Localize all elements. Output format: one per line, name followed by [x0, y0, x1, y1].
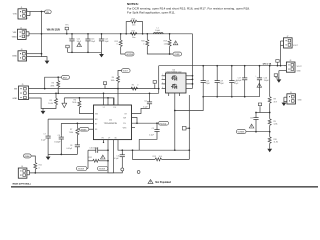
node junction J1 wire — [41, 11, 43, 13]
wire VBIAS to R11 — [31, 156, 35, 163]
svg-text:R8: R8 — [274, 99, 276, 101]
svg-text:20m: 20m — [132, 37, 136, 39]
net label VOUT fb — [122, 69, 131, 73]
pin stub U1 top pin4 — [113, 98, 115, 105]
not-populated mark C12 — [77, 43, 82, 47]
svg-text:SW: SW — [123, 117, 126, 119]
svg-text:GND: GND — [12, 98, 17, 100]
node junction J3 — [41, 53, 43, 55]
node junction VIN bus — [41, 33, 43, 35]
node junction C4 rail — [149, 92, 151, 94]
svg-text:R2: R2 — [132, 84, 134, 86]
net label EN — [62, 75, 70, 79]
capacitor C20 output — [229, 66, 239, 97]
svg-text:RT: RT — [95, 123, 97, 125]
svg-text:3 2: 3 2 — [103, 107, 105, 109]
capacitor C19 output — [215, 66, 225, 97]
ground J9 — [282, 103, 287, 106]
resistor R13 — [153, 156, 190, 161]
test point C11 terminal — [121, 168, 124, 171]
node junction R11 bottom — [34, 172, 36, 174]
svg-text:R11: R11 — [39, 165, 42, 167]
wire agnd rail — [29, 92, 159, 94]
node junction sw pg — [136, 122, 138, 124]
resistor R4 — [111, 76, 120, 105]
node junction C15 top — [202, 65, 204, 67]
svg-text:R7: R7 — [70, 129, 72, 131]
svg-text:J7: J7 — [287, 36, 289, 38]
connector J9 gnd — [284, 92, 302, 104]
net label ENSS — [80, 127, 94, 131]
test point TP gnd — [66, 45, 69, 52]
wire vreg line — [64, 98, 114, 105]
svg-text:76.8k: 76.8k — [72, 102, 76, 104]
svg-text:VBIAS (OPTIONAL): VBIAS (OPTIONAL) — [12, 183, 31, 186]
svg-text:CSD87588ND Q5D: CSD87588ND Q5D — [166, 72, 182, 74]
svg-text:1.0µH: 1.0µH — [155, 30, 161, 32]
connector J2 — [12, 27, 29, 39]
node junction TP1 — [66, 33, 68, 35]
node junction C18 bottom — [255, 131, 257, 133]
svg-text:GND: GND — [297, 71, 302, 73]
svg-text:VBIAS: VBIAS — [24, 155, 30, 158]
svg-text:J5: J5 — [22, 84, 24, 86]
svg-text:C5: C5 — [152, 128, 154, 130]
capacitor C13 — [85, 34, 96, 53]
capacitor C18 feedforward — [250, 113, 259, 132]
svg-text:150µF: 150µF — [264, 80, 270, 82]
ground input caps — [99, 52, 104, 57]
svg-text:Not Populated: Not Populated — [155, 181, 171, 184]
svg-text:TP1: TP1 — [65, 25, 68, 27]
wire U1 sw pin — [132, 118, 138, 124]
svg-text:0: 0 — [117, 44, 118, 46]
net label GOSNS — [125, 52, 134, 56]
wire R19 to sense label — [169, 46, 171, 54]
resistor R2 series fb — [131, 84, 138, 90]
wire J1 to VIN net label — [30, 11, 45, 13]
wire U2 pgnd down path — [174, 96, 176, 150]
node junction pin1 rail — [103, 92, 105, 94]
svg-text:C11: C11 — [116, 155, 119, 157]
net label VIN — [45, 10, 52, 14]
node junction loop right — [142, 33, 144, 35]
op IC U1 TPS54824 — [94, 105, 132, 140]
resistor R16 parallel loop — [126, 18, 142, 33]
pin stubs U2 bottom — [169, 93, 180, 96]
wire under-IC loop right rail — [107, 140, 109, 169]
capacitor C6 — [54, 135, 64, 154]
svg-text:R5: R5 — [50, 100, 52, 102]
resistor R11 — [34, 163, 42, 173]
svg-text:BT: BT — [125, 113, 127, 115]
wire R13 branch — [133, 150, 156, 159]
svg-text:VOUT: VOUT — [293, 45, 299, 47]
connector J3 — [12, 49, 42, 61]
capacitor C5 vreg — [139, 123, 159, 139]
resistor R6 — [72, 98, 94, 114]
node junction loop c10 — [107, 149, 109, 151]
svg-text:VIN: VIN — [13, 14, 17, 16]
node junction C17 top — [244, 65, 246, 67]
node junction R18 — [146, 33, 148, 35]
output rail VOUT — [159, 65, 287, 67]
wire vertical VIN bus — [41, 12, 43, 57]
test point TP fb — [258, 103, 269, 113]
svg-text:J8: J8 — [289, 60, 291, 62]
resistor R8 feedback top — [268, 66, 277, 119]
capacitor C7 — [41, 133, 51, 154]
wire J8 gnd — [278, 71, 280, 80]
wire under-IC loop left rail — [87, 150, 89, 168]
svg-text:R16: R16 — [132, 18, 135, 20]
resistor R19 — [164, 34, 172, 46]
capacitor C16 output bulk — [255, 66, 269, 97]
svg-text:C8: C8 — [70, 145, 72, 147]
node junction C5 tap — [156, 122, 158, 124]
connector J1 — [13, 7, 30, 20]
pin stubs U2 left — [162, 74, 166, 89]
wire VIN rail corner to U2 — [192, 34, 194, 89]
svg-text:R6: R6 — [74, 99, 76, 101]
svg-text:R15: R15 — [115, 41, 118, 43]
wire enable branch — [45, 77, 62, 88]
pin stubs U1 left — [48, 119, 93, 123]
net label CSNS — [173, 52, 182, 56]
pin stub U1 bottom pin1 — [103, 140, 105, 143]
svg-text:MODE: MODE — [99, 169, 105, 171]
node junction comp gnd — [60, 154, 62, 156]
analog ground symbol — [62, 98, 67, 108]
svg-text:R10: R10 — [274, 139, 277, 141]
inductor L1 — [154, 28, 164, 34]
svg-text:PGOOD: PGOOD — [160, 123, 167, 125]
svg-text:R9: R9 — [274, 121, 276, 123]
node junction segA c11 — [121, 149, 123, 151]
node junction C18 top — [255, 112, 257, 114]
resistor R18 — [141, 34, 149, 46]
svg-text:R3: R3 — [52, 83, 54, 85]
connector J7 vout top — [281, 36, 299, 48]
node junction segA R13 — [132, 149, 134, 151]
svg-text:J3: J3 — [21, 49, 23, 51]
node junction EN branch — [44, 88, 46, 90]
wire SW node vertical — [188, 95, 190, 159]
svg-text:1 16: 1 16 — [113, 107, 116, 109]
border bottom line — [11, 186, 318, 187]
capacitor C15 output — [201, 66, 211, 97]
node junction R15 — [120, 33, 122, 35]
svg-text:MODE: MODE — [78, 169, 84, 171]
node junction loop left — [125, 33, 127, 35]
node junction R3 top — [57, 76, 59, 78]
connector J4 enable — [12, 84, 28, 100]
svg-text:12V @ 3A: 12V @ 3A — [263, 63, 272, 66]
wire J3 to ground — [42, 57, 48, 61]
ground J8 — [277, 79, 282, 82]
svg-text:0: 0 — [39, 167, 40, 169]
svg-text:10.0: 10.0 — [159, 156, 163, 158]
wire vbias line — [30, 171, 123, 173]
net label VBIAS — [24, 154, 32, 158]
wire output gnd rail — [203, 96, 259, 98]
svg-text:R19: R19 — [164, 41, 167, 43]
node junction R3 bottom — [57, 92, 59, 94]
svg-text:100µF: 100µF — [236, 80, 242, 82]
ground J4 R5 — [41, 111, 46, 114]
wire U1 pgood — [132, 122, 159, 124]
node junction C19 bottom — [216, 96, 218, 98]
svg-text:J1: J1 — [21, 7, 23, 9]
wire fb line J4 to rail drop — [29, 88, 159, 90]
resistor R10 feedback bottom — [268, 137, 278, 149]
svg-text:J9: J9 — [290, 92, 292, 94]
ground R10 — [267, 149, 272, 152]
svg-text:11.8k: 11.8k — [274, 142, 278, 144]
node junction C20 bottom — [231, 96, 233, 98]
node junction C16 top — [259, 65, 261, 67]
test point TP sw — [153, 81, 156, 89]
connector J6 vbias — [12, 166, 31, 185]
net label RT — [77, 167, 89, 171]
svg-text:J6: J6 — [21, 166, 23, 168]
capacitor C14 — [99, 34, 110, 53]
svg-text:CP: CP — [108, 137, 110, 139]
pin stub U1 right pin4 — [132, 127, 136, 129]
wire U pin3 bottom — [108, 140, 114, 173]
resistor R12 loop — [88, 157, 108, 162]
svg-text:R13: R13 — [153, 156, 156, 158]
node junction J7 — [280, 65, 282, 67]
node junction fb mid — [269, 112, 271, 114]
node junction R8 top — [269, 65, 271, 67]
node junction TP vout — [277, 65, 279, 67]
node junction C12 — [71, 33, 73, 35]
svg-text:VIN: VIN — [46, 12, 50, 14]
svg-text:0: 0 — [143, 43, 144, 45]
capacitor C12 input bulk — [69, 34, 82, 53]
wire fb chain from label — [118, 71, 122, 77]
node junction loop r12 — [107, 160, 109, 162]
wire R18 sense line — [147, 46, 173, 54]
svg-text:C7: C7 — [43, 133, 45, 135]
capacitor C10 loop — [88, 147, 108, 152]
wire U1 fb bottom chain — [118, 140, 189, 151]
node junction C19 top — [216, 65, 218, 67]
svg-text:C4: C4 — [144, 100, 146, 102]
wire VOSNS to divider — [246, 131, 270, 133]
notes text block — [127, 2, 250, 14]
pin stubs U2 right — [186, 76, 193, 89]
node junction comp B — [77, 123, 79, 125]
ground input — [45, 61, 50, 64]
resistor R15 — [115, 34, 123, 47]
svg-text:R18: R18 — [141, 41, 144, 43]
resistor R17 series — [130, 30, 137, 38]
node junction pgnd — [202, 96, 204, 98]
not-populated mark C16 — [257, 83, 262, 87]
wire vreg return — [138, 139, 140, 150]
svg-text:TPS54824RTE: TPS54824RTE — [104, 123, 118, 125]
resistor R7 comp — [69, 123, 79, 143]
wire rail left drop — [158, 66, 160, 94]
svg-text:C18: C18 — [250, 117, 253, 119]
capacitor C17 output — [236, 66, 247, 97]
wire R15 to net label — [121, 47, 125, 54]
net label PGOOD — [159, 121, 169, 125]
ground comp — [46, 154, 51, 160]
net label MODE2 — [98, 167, 108, 171]
svg-text:For Split Rail application, op: For Split Rail application, open R11. — [127, 10, 176, 14]
wire input cap ground rail — [68, 51, 102, 53]
wire comp chain B — [60, 123, 62, 135]
test point TP fb2 — [103, 82, 118, 89]
node junction R19 bottom — [169, 53, 171, 55]
svg-text:20m: 20m — [132, 25, 136, 27]
svg-text:R17: R17 — [132, 30, 135, 32]
svg-text:1500pF: 1500pF — [54, 141, 61, 143]
node junction C14 — [101, 33, 103, 35]
wire comp pin chain A — [47, 119, 49, 134]
svg-text:C10 100pF: C10 100pF — [89, 147, 99, 149]
node junction cap gnd 2 — [87, 51, 89, 53]
svg-text:2: 2 — [27, 18, 28, 20]
test point TP vout — [276, 60, 279, 66]
test point TP gnd out — [274, 74, 277, 78]
resistor R9 feedback mid — [268, 119, 277, 137]
node junction R5 top — [55, 92, 57, 94]
wire C18 to R9 junction — [256, 112, 260, 114]
node junction R6 top — [79, 97, 81, 99]
node junction vreg pin2 — [107, 97, 109, 99]
net stub SW sense — [182, 126, 189, 130]
svg-text:VOUT: VOUT — [123, 71, 129, 73]
node junction C20 top — [231, 65, 233, 67]
svg-text:49.9: 49.9 — [274, 101, 278, 103]
not-populated mark R19 — [173, 41, 178, 45]
svg-text:0: 0 — [137, 84, 138, 86]
svg-text:499k: 499k — [50, 85, 54, 87]
node junction VOSNS — [269, 131, 271, 133]
net label VOSNS — [236, 130, 246, 134]
svg-text:GND: GND — [298, 100, 303, 102]
svg-text:1.00k: 1.00k — [164, 43, 168, 45]
resistor R3 — [50, 77, 59, 93]
node junction cap gnd — [71, 51, 73, 53]
svg-text:GOSNS: GOSNS — [126, 54, 134, 56]
capacitor C8 comp — [66, 143, 80, 154]
node junction sw r13 — [188, 127, 190, 129]
connector J8 vout — [279, 60, 303, 72]
svg-text:100k: 100k — [111, 80, 115, 82]
not-populated mark C18 — [249, 124, 254, 128]
pin stub U1 top pin1 — [103, 93, 105, 105]
wire VIN input rail — [29, 33, 193, 35]
svg-text:0.01µF: 0.01µF — [66, 148, 73, 150]
wire comp gnd rail — [48, 153, 77, 155]
svg-text:VIN: VIN — [13, 32, 17, 34]
legend not populated — [148, 180, 172, 184]
svg-text:R4: R4 — [112, 77, 114, 79]
svg-text:+: + — [255, 76, 256, 78]
svg-text:EN: EN — [14, 89, 17, 91]
svg-text:1: 1 — [27, 10, 28, 12]
svg-text:GND: GND — [12, 37, 17, 39]
capacitor C11 — [114, 150, 125, 168]
svg-text:10.0k: 10.0k — [48, 103, 52, 105]
node junction U2 vin pins — [192, 75, 194, 77]
svg-text:FB: FB — [102, 137, 104, 139]
pin stub U1 top pin2 — [107, 98, 109, 105]
resistor R5 — [43, 93, 58, 108]
node junction C13 — [87, 33, 89, 35]
svg-text:VOSNS: VOSNS — [238, 132, 245, 134]
power block U2 — [166, 69, 187, 93]
capacitor C4 boot — [132, 93, 153, 113]
svg-text:CSNS: CSNS — [174, 54, 180, 56]
svg-text:GND: GND — [12, 56, 17, 58]
svg-text:R12: R12 — [88, 157, 91, 159]
svg-text:EN/SS: EN/SS — [81, 129, 87, 131]
svg-text:124k: 124k — [274, 124, 278, 126]
node junction fb right — [158, 88, 160, 90]
node junction R19 top — [169, 33, 171, 35]
svg-text:+: + — [69, 38, 70, 40]
node junction fb — [117, 88, 119, 90]
svg-text:J2: J2 — [20, 27, 22, 29]
not-populated mark R12 — [101, 155, 106, 159]
svg-text:VIN: 8V-12.8V: VIN: 8V-12.8V — [47, 30, 61, 32]
wire J7 to rail — [280, 45, 282, 65]
svg-text:7.68k: 7.68k — [69, 132, 73, 134]
svg-text:C6: C6 — [58, 135, 60, 137]
terminal circle vbias end — [137, 171, 140, 174]
wire J4 gnd pin — [29, 98, 44, 111]
node junction C17 bottom — [244, 96, 246, 98]
test point TP1 — [65, 25, 68, 34]
